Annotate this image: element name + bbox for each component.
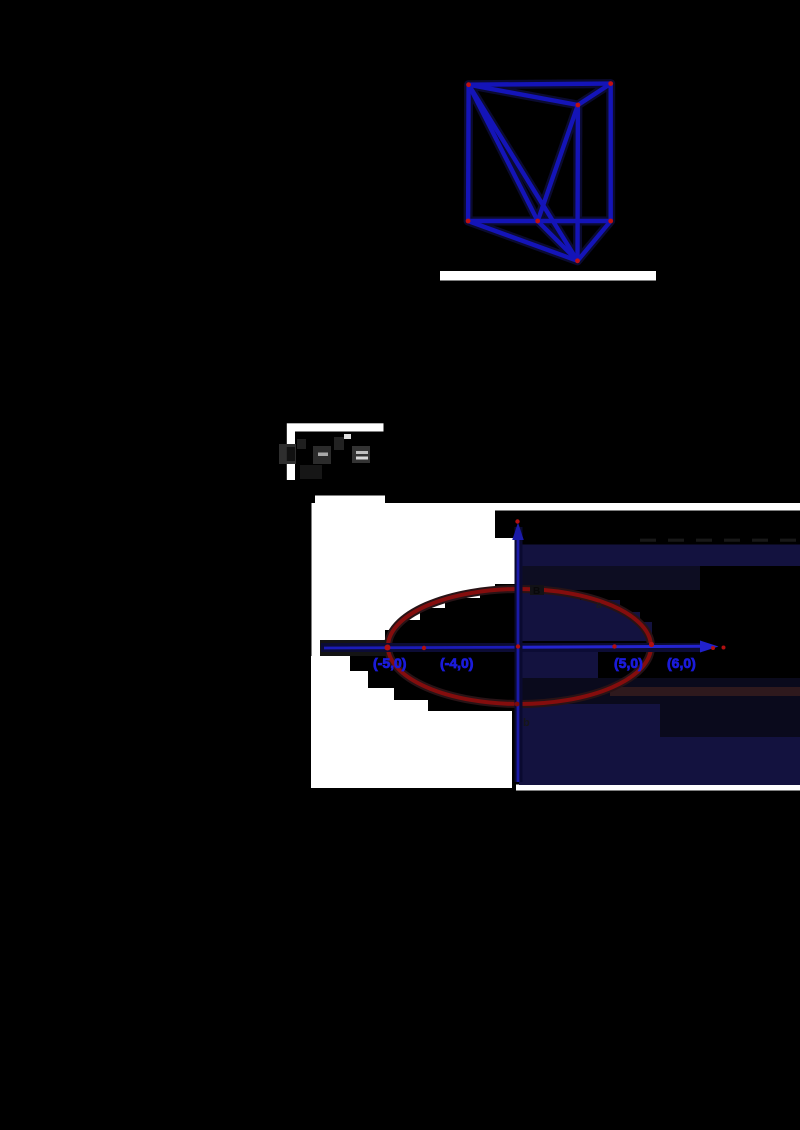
marker beyond x arrow bbox=[722, 646, 726, 650]
marker right focus bbox=[612, 644, 616, 648]
svg-text:(5,0): (5,0) bbox=[614, 655, 643, 671]
svg-text:a: a bbox=[596, 600, 602, 611]
prism wireframe bbox=[468, 84, 611, 261]
diagonal TM-BM bbox=[538, 105, 578, 221]
x axis halo bbox=[320, 640, 386, 656]
marker left focus (-4,0) bbox=[422, 646, 426, 650]
edge BL-BA bbox=[468, 221, 577, 261]
marker ellipse bottom bbox=[515, 702, 520, 707]
edge BR-BA bbox=[578, 221, 611, 261]
diagonal TL-BM bbox=[469, 85, 538, 221]
marker left vertex (-5,0) bbox=[385, 645, 391, 651]
graph navy patches bbox=[518, 540, 800, 785]
vertex dot bottom-apex bbox=[575, 258, 580, 263]
x axis arrow bbox=[700, 641, 719, 653]
prism halo bbox=[468, 84, 611, 261]
edge top bbox=[469, 84, 611, 85]
marker above y arrow bbox=[515, 519, 519, 523]
vertex dot top-middle bbox=[576, 103, 581, 108]
graph white patches bbox=[311, 496, 800, 791]
edge right vertical bbox=[609, 84, 613, 221]
white bar under prism bbox=[440, 271, 656, 281]
y axis bbox=[517, 530, 520, 782]
marker on x arrow bbox=[711, 646, 715, 650]
svg-text:(6,0): (6,0) bbox=[667, 655, 696, 671]
edge TL-TM bbox=[469, 85, 578, 105]
marker origin bbox=[516, 644, 520, 648]
vertex dot top-left bbox=[466, 82, 471, 87]
vertex dot bottom-right bbox=[608, 219, 613, 224]
marker right vertex (5,0) bbox=[649, 642, 654, 647]
svg-text:B: B bbox=[533, 586, 540, 597]
edge left vertical bbox=[466, 85, 471, 221]
vertex dot bottom-middle bbox=[535, 219, 540, 224]
svg-text:(-4,0): (-4,0) bbox=[440, 655, 473, 671]
y axis arrow bbox=[512, 523, 524, 541]
edge BM-BA bbox=[538, 221, 578, 261]
y axis halo bbox=[515, 527, 523, 782]
svg-text:(-5,0): (-5,0) bbox=[373, 655, 406, 671]
edge TM-TR bbox=[578, 84, 611, 105]
vertex dot top-right bbox=[608, 81, 613, 86]
formula remnants bbox=[279, 423, 384, 480]
vertex dot bottom-left bbox=[466, 219, 471, 224]
axis labels (blue) bbox=[373, 655, 696, 671]
svg-text:b: b bbox=[523, 717, 530, 729]
diagonal TL-BA bbox=[469, 85, 578, 261]
ellipse halo bbox=[388, 589, 651, 704]
edge TM-BA vertical bbox=[575, 105, 580, 261]
x axis bbox=[324, 646, 519, 650]
edge bottom horizontal bbox=[468, 219, 611, 223]
ellipse bbox=[388, 589, 651, 704]
faint dark glyphs on graph bbox=[523, 585, 602, 729]
